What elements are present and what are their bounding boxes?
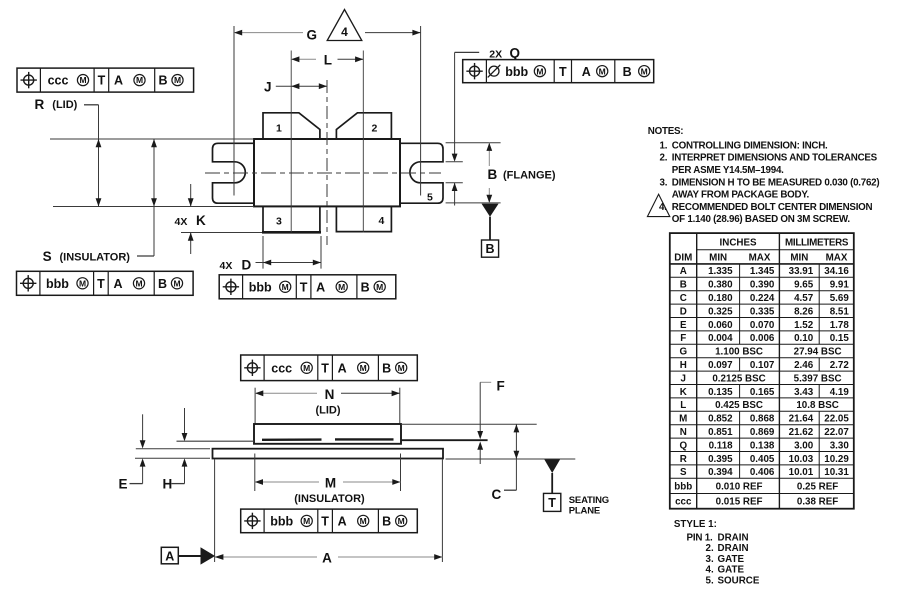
- svg-text:10.29: 10.29: [824, 454, 849, 465]
- svg-text:0.070: 0.070: [750, 320, 775, 331]
- svg-text:21.64: 21.64: [789, 414, 814, 425]
- svg-text:0.868: 0.868: [750, 414, 775, 425]
- svg-text:2X: 2X: [489, 48, 502, 60]
- svg-text:3.30: 3.30: [830, 440, 850, 451]
- svg-text:OF 1.140 (28.96) BASED ON 3M S: OF 1.140 (28.96) BASED ON 3M SCREW.: [672, 214, 851, 225]
- svg-text:9.65: 9.65: [794, 280, 814, 291]
- svg-text:0.10: 0.10: [794, 333, 814, 344]
- svg-text:0.165: 0.165: [750, 387, 775, 398]
- svg-text:T: T: [548, 496, 556, 510]
- svg-text:Q: Q: [510, 46, 521, 61]
- svg-text:M: M: [599, 66, 606, 76]
- svg-text:0.135: 0.135: [708, 387, 733, 398]
- svg-text:C: C: [680, 293, 687, 304]
- svg-text:0.138: 0.138: [750, 440, 775, 451]
- svg-text:INCHES: INCHES: [720, 238, 757, 249]
- svg-text:1.78: 1.78: [830, 320, 850, 331]
- svg-text:33.91: 33.91: [789, 266, 814, 277]
- svg-text:K: K: [680, 387, 687, 398]
- dimension E (flange thickness): [142, 414, 144, 440]
- dimension table: [670, 233, 854, 509]
- svg-text:PER ASME Y14.5M–1994.: PER ASME Y14.5M–1994.: [672, 165, 784, 176]
- seating plane line: [446, 458, 576, 460]
- dimension 4X D (lead width): [262, 236, 264, 269]
- svg-text:RECOMMENDED BOLT CENTER DIMENS: RECOMMENDED BOLT CENTER DIMENSION: [672, 202, 873, 213]
- svg-text:(LID): (LID): [52, 99, 77, 111]
- svg-text:2.46: 2.46: [794, 360, 814, 371]
- feature control frame ccc (side view): [241, 355, 418, 381]
- dimension R (lid width): [84, 104, 99, 106]
- vertical centerline: [326, 80, 328, 245]
- svg-text:0.25 REF: 0.25 REF: [797, 482, 838, 493]
- svg-text:L: L: [324, 53, 332, 68]
- svg-text:2.: 2.: [660, 153, 668, 164]
- svg-text:N: N: [680, 427, 687, 438]
- dimension B (flange width) extension lines: [446, 142, 501, 144]
- svg-text:2.72: 2.72: [830, 360, 850, 371]
- svg-text:A: A: [322, 550, 332, 565]
- svg-text:B: B: [488, 167, 498, 182]
- svg-text:1.52: 1.52: [794, 320, 814, 331]
- svg-text:0.2125 BSC: 0.2125 BSC: [712, 373, 765, 384]
- dimension N (lid length): [254, 388, 256, 424]
- svg-text:T: T: [559, 65, 567, 79]
- svg-text:J: J: [681, 373, 686, 384]
- svg-text:B: B: [623, 65, 632, 79]
- svg-text:1.100 BSC: 1.100 BSC: [715, 347, 763, 358]
- svg-text:A: A: [165, 549, 174, 563]
- svg-text:CONTROLLING DIMENSION: INCH.: CONTROLLING DIMENSION: INCH.: [672, 140, 828, 151]
- svg-text:0.060: 0.060: [708, 320, 733, 331]
- dimension L (lead span 0.425 BSC): [290, 51, 292, 233]
- svg-text:B: B: [361, 280, 370, 294]
- svg-text:3: 3: [276, 216, 282, 228]
- svg-text:PLANE: PLANE: [569, 506, 600, 517]
- svg-text:0.335: 0.335: [750, 306, 775, 317]
- svg-text:0.010 REF: 0.010 REF: [716, 482, 763, 493]
- svg-text:MAX: MAX: [826, 252, 848, 263]
- svg-text:4X: 4X: [175, 216, 188, 228]
- svg-text:27.94 BSC: 27.94 BSC: [794, 347, 842, 358]
- svg-text:0.851: 0.851: [708, 427, 733, 438]
- svg-text:0.15: 0.15: [830, 333, 850, 344]
- svg-text:10.8 BSC: 10.8 BSC: [796, 400, 838, 411]
- style 1 pin list: [674, 519, 760, 586]
- svg-text:(INSULATOR): (INSULATOR): [60, 252, 131, 264]
- svg-text:0.869: 0.869: [750, 427, 775, 438]
- svg-text:(LID): (LID): [315, 405, 340, 417]
- lead line inside lid (thick): [262, 438, 322, 441]
- svg-text:B: B: [485, 242, 494, 256]
- top view package body (flange/lid outline): [254, 139, 400, 206]
- svg-text:8.26: 8.26: [794, 306, 814, 317]
- flange bottom extension line (left): [135, 457, 210, 459]
- svg-text:2.: 2.: [706, 543, 714, 554]
- svg-text:INTERPRET DIMENSIONS AND TOLER: INTERPRET DIMENSIONS AND TOLERANCES: [672, 153, 878, 164]
- svg-text:M: M: [325, 475, 336, 490]
- svg-text:L: L: [680, 400, 686, 411]
- feature control frame bbb (side view): [241, 509, 418, 533]
- svg-text:21.62: 21.62: [789, 427, 814, 438]
- svg-text:M: M: [398, 363, 405, 373]
- lid top extension line (right): [401, 423, 537, 425]
- svg-text:(INSULATOR): (INSULATOR): [294, 493, 365, 505]
- svg-text:1: 1: [276, 123, 282, 135]
- notes block: [648, 126, 880, 225]
- lead 1 (top left, chamfered): [263, 113, 320, 139]
- slot edge extension lines: [446, 161, 463, 163]
- svg-text:3.: 3.: [660, 177, 668, 188]
- svg-text:G: G: [307, 27, 318, 42]
- svg-text:M: M: [679, 414, 687, 425]
- svg-text:D: D: [242, 257, 252, 272]
- svg-text:10.01: 10.01: [789, 467, 814, 478]
- svg-text:A: A: [114, 74, 123, 88]
- svg-text:M: M: [536, 66, 543, 76]
- svg-text:DIM: DIM: [674, 252, 692, 263]
- feature control frame 2X Q: [463, 60, 654, 83]
- left mounting tab with screw slot: [213, 143, 255, 203]
- lead line right of lid: [401, 439, 488, 441]
- body bottom edge extension line: [53, 206, 254, 208]
- svg-text:T: T: [300, 280, 308, 294]
- svg-text:T: T: [321, 515, 329, 529]
- datum B symbol: [482, 204, 499, 217]
- svg-text:H: H: [680, 360, 687, 371]
- svg-text:PIN 1.: PIN 1.: [687, 532, 714, 543]
- svg-text:DIMENSION H TO BE MEASURED 0.0: DIMENSION H TO BE MEASURED 0.030 (0.762): [672, 177, 880, 188]
- svg-text:9.91: 9.91: [830, 280, 850, 291]
- svg-text:5: 5: [427, 192, 433, 204]
- lead 2 (top right, chamfered): [336, 113, 391, 139]
- svg-text:A: A: [338, 361, 347, 375]
- svg-text:NOTES:: NOTES:: [648, 126, 684, 137]
- right mounting tab with screw slot (lead 5 / source): [400, 143, 443, 203]
- svg-text:A: A: [680, 266, 687, 277]
- svg-text:B: B: [158, 74, 167, 88]
- svg-text:5.: 5.: [706, 575, 714, 586]
- svg-text:A: A: [113, 277, 122, 291]
- dimension G (bolt centers, 1.100 BSC): [233, 26, 235, 196]
- svg-text:10.31: 10.31: [824, 467, 849, 478]
- svg-text:0.180: 0.180: [708, 293, 733, 304]
- svg-text:M: M: [282, 282, 289, 292]
- svg-text:A: A: [582, 65, 591, 79]
- svg-text:8.51: 8.51: [830, 306, 850, 317]
- svg-text:bbb: bbb: [674, 482, 692, 493]
- dimension A (overall length): [214, 460, 216, 563]
- svg-text:0.097: 0.097: [708, 360, 733, 371]
- svg-text:Q: Q: [679, 440, 687, 451]
- svg-text:4X: 4X: [220, 260, 233, 272]
- svg-text:1.335: 1.335: [708, 266, 733, 277]
- svg-text:MILLIMETERS: MILLIMETERS: [785, 238, 849, 249]
- flange top extension line (left): [136, 448, 210, 450]
- svg-text:0.394: 0.394: [708, 467, 733, 478]
- svg-text:B: B: [382, 361, 391, 375]
- svg-text:M: M: [173, 278, 180, 288]
- svg-text:0.107: 0.107: [750, 360, 775, 371]
- svg-text:bbb: bbb: [46, 277, 69, 291]
- svg-text:2: 2: [372, 123, 378, 135]
- dimension H (lead height): [184, 408, 186, 433]
- svg-text:E: E: [680, 320, 687, 331]
- feature control frame bbb (lower left): [17, 271, 194, 295]
- svg-text:3.: 3.: [706, 554, 714, 565]
- svg-text:bbb: bbb: [505, 65, 528, 79]
- svg-text:C: C: [492, 487, 502, 502]
- svg-text:M: M: [338, 282, 345, 292]
- svg-text:B: B: [680, 280, 687, 291]
- svg-text:0.004: 0.004: [708, 333, 733, 344]
- svg-text:4.19: 4.19: [830, 387, 850, 398]
- svg-text:R: R: [35, 97, 45, 112]
- svg-text:22.05: 22.05: [824, 414, 849, 425]
- svg-text:bbb: bbb: [249, 280, 272, 294]
- svg-text:E: E: [119, 477, 128, 492]
- svg-text:A: A: [338, 515, 347, 529]
- svg-text:0.224: 0.224: [750, 293, 775, 304]
- svg-text:M: M: [135, 278, 142, 288]
- svg-text:M: M: [79, 278, 86, 288]
- svg-text:M: M: [360, 363, 367, 373]
- svg-text:B: B: [158, 277, 167, 291]
- svg-text:0.405: 0.405: [750, 454, 775, 465]
- svg-text:M: M: [641, 66, 648, 76]
- lead 3 (bottom left): [263, 207, 320, 233]
- svg-text:0.38 REF: 0.38 REF: [797, 497, 838, 508]
- svg-text:T: T: [98, 74, 106, 88]
- svg-text:B: B: [382, 515, 391, 529]
- svg-text:1.: 1.: [660, 140, 668, 151]
- svg-text:4.57: 4.57: [794, 293, 814, 304]
- svg-text:T: T: [97, 277, 105, 291]
- dimension F (lead flatness): [480, 381, 491, 383]
- svg-text:J: J: [264, 80, 272, 95]
- svg-text:0.406: 0.406: [750, 467, 775, 478]
- svg-text:0.395: 0.395: [708, 454, 733, 465]
- svg-text:ccc: ccc: [271, 361, 292, 375]
- dimension S (insulator width): [153, 139, 155, 256]
- side view lid: [254, 424, 401, 444]
- svg-text:MIN: MIN: [790, 252, 808, 263]
- svg-text:DRAIN: DRAIN: [718, 543, 749, 554]
- svg-text:T: T: [321, 361, 329, 375]
- 2X Q slot width leader: [455, 51, 480, 53]
- svg-text:(FLANGE): (FLANGE): [503, 169, 556, 181]
- body top edge extension line (lid): [50, 138, 254, 140]
- svg-text:M: M: [136, 75, 143, 85]
- svg-text:M: M: [376, 282, 383, 292]
- dimension M (insulator length): [254, 454, 256, 492]
- svg-text:ccc: ccc: [48, 74, 69, 88]
- datum A symbol: [161, 547, 178, 564]
- svg-text:S: S: [680, 467, 687, 478]
- svg-text:A: A: [316, 280, 325, 294]
- svg-text:5.69: 5.69: [830, 293, 850, 304]
- svg-text:3.00: 3.00: [794, 440, 814, 451]
- dimension 4X K (lead length): [190, 184, 192, 207]
- feature control frame ccc (upper left): [17, 68, 194, 92]
- svg-text:34.16: 34.16: [824, 266, 849, 277]
- note-4 flag triangle: [327, 10, 362, 41]
- svg-text:GATE: GATE: [718, 565, 745, 576]
- svg-text:M: M: [303, 516, 310, 526]
- svg-text:M: M: [79, 75, 86, 85]
- svg-text:MAX: MAX: [749, 252, 771, 263]
- feature control frame bbb (4X D): [219, 275, 396, 299]
- svg-text:M: M: [360, 516, 367, 526]
- svg-text:S: S: [43, 249, 52, 264]
- svg-text:0.425 BSC: 0.425 BSC: [715, 400, 763, 411]
- svg-text:SOURCE: SOURCE: [718, 575, 760, 586]
- svg-text:M: M: [174, 75, 181, 85]
- note 4 triangle flag: [647, 194, 669, 216]
- svg-text:0.015 REF: 0.015 REF: [716, 497, 763, 508]
- svg-text:0.118: 0.118: [709, 440, 734, 451]
- svg-text:5.397 BSC: 5.397 BSC: [794, 373, 842, 384]
- svg-text:3.43: 3.43: [794, 387, 814, 398]
- svg-text:10.03: 10.03: [789, 454, 814, 465]
- svg-text:AWAY FROM PACKAGE BODY.: AWAY FROM PACKAGE BODY.: [672, 190, 810, 201]
- svg-text:22.07: 22.07: [824, 427, 849, 438]
- lead 3 tip extension line: [181, 232, 262, 234]
- dimension C (overall height): [515, 424, 517, 490]
- svg-text:bbb: bbb: [270, 515, 293, 529]
- svg-text:D: D: [680, 306, 687, 317]
- horizontal centerline: [205, 172, 441, 174]
- svg-text:1.345: 1.345: [750, 266, 775, 277]
- svg-text:0.852: 0.852: [708, 414, 733, 425]
- svg-text:M: M: [398, 516, 405, 526]
- svg-text:N: N: [325, 387, 335, 402]
- svg-text:G: G: [679, 347, 687, 358]
- svg-text:MIN: MIN: [709, 252, 727, 263]
- svg-text:4: 4: [379, 215, 385, 227]
- svg-text:4.: 4.: [706, 565, 714, 576]
- svg-text:R: R: [680, 454, 687, 465]
- svg-text:0.006: 0.006: [750, 333, 775, 344]
- svg-text:M: M: [303, 363, 310, 373]
- svg-text:0.325: 0.325: [708, 306, 733, 317]
- side view flange: [213, 449, 444, 459]
- svg-text:K: K: [196, 213, 206, 228]
- svg-text:H: H: [163, 477, 173, 492]
- svg-text:STYLE 1:: STYLE 1:: [674, 519, 717, 530]
- lead line left of lid: [177, 440, 255, 442]
- seating plane datum T: [544, 459, 560, 473]
- svg-text:ccc: ccc: [675, 497, 692, 508]
- svg-text:0.380: 0.380: [708, 280, 733, 291]
- lead 4 (bottom right): [336, 207, 391, 232]
- svg-text:F: F: [680, 333, 686, 344]
- dimension B arrows: [488, 143, 490, 166]
- svg-text:SEATING: SEATING: [569, 495, 609, 506]
- svg-text:GATE: GATE: [718, 554, 745, 565]
- svg-text:4: 4: [341, 25, 348, 39]
- svg-text:DRAIN: DRAIN: [718, 532, 749, 543]
- svg-text:0.390: 0.390: [750, 280, 775, 291]
- svg-text:F: F: [497, 379, 505, 394]
